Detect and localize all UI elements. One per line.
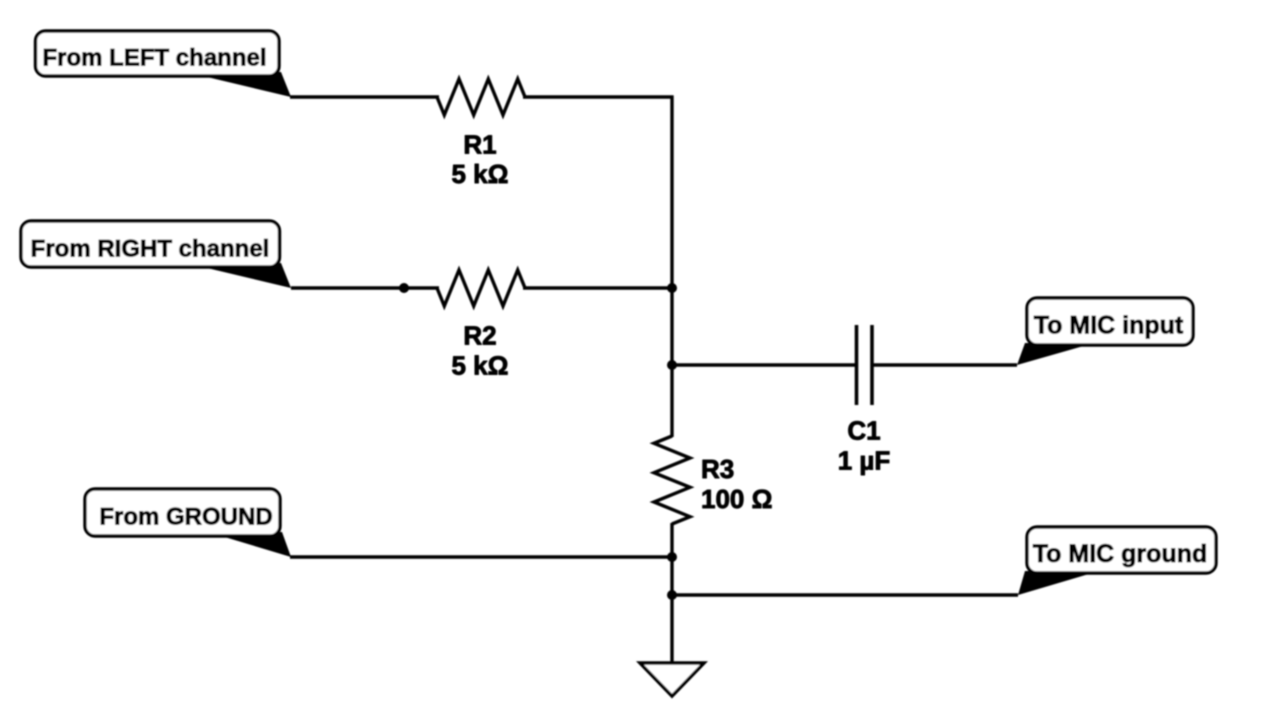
wire xyxy=(670,523,673,663)
resistor R1 xyxy=(437,79,525,189)
svg-text:100 Ω: 100 Ω xyxy=(701,484,772,514)
wire to capacitor xyxy=(672,363,855,366)
svg-text:R3: R3 xyxy=(701,454,734,484)
wire xyxy=(291,286,439,289)
resistor R2 xyxy=(437,270,525,381)
ground xyxy=(640,663,704,696)
flag From LEFT channel xyxy=(36,31,292,97)
wire from ground flag xyxy=(290,555,672,558)
wire xyxy=(523,95,674,98)
capacitor C1 xyxy=(838,325,891,476)
flag To MIC ground xyxy=(1018,527,1216,595)
resistor R3 xyxy=(654,436,772,524)
svg-text:5 kΩ: 5 kΩ xyxy=(452,159,509,189)
wire xyxy=(523,286,672,289)
flag To MIC input xyxy=(1017,298,1193,365)
node junction dot at C1 branch xyxy=(667,360,677,370)
flag From GROUND xyxy=(85,489,291,557)
svg-text:C1: C1 xyxy=(847,416,880,446)
svg-text:From RIGHT channel: From RIGHT channel xyxy=(31,236,270,263)
wire to MIC ground flag xyxy=(672,593,1018,596)
wire vertical main bus xyxy=(670,96,673,438)
node junction dot on R2 wire xyxy=(399,283,409,293)
node junction dot at R2/vertical xyxy=(667,283,677,293)
flag From RIGHT channel xyxy=(21,221,291,288)
svg-text:To MIC ground: To MIC ground xyxy=(1033,540,1208,568)
svg-text:5 kΩ: 5 kΩ xyxy=(452,351,509,381)
svg-text:1 µF: 1 µF xyxy=(838,446,891,476)
svg-text:To MIC input: To MIC input xyxy=(1034,312,1184,340)
node junction dot at MIC ground wire xyxy=(667,590,677,600)
svg-text:From GROUND: From GROUND xyxy=(99,504,272,531)
node junction dot at ground wire xyxy=(667,552,677,562)
wire xyxy=(290,95,439,98)
svg-text:R1: R1 xyxy=(463,130,496,160)
wire xyxy=(873,363,1017,366)
svg-text:From LEFT channel: From LEFT channel xyxy=(42,45,266,72)
svg-text:R2: R2 xyxy=(463,321,496,351)
